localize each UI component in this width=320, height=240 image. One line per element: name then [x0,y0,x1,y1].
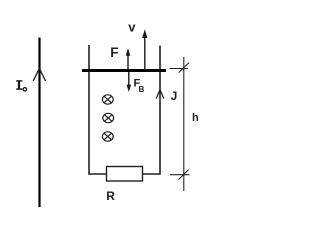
svg-text:B: B [139,85,145,94]
wire: bottom right segment [143,173,161,175]
dimension extension top [170,63,190,73]
field symbol B3 (into page) [102,132,113,141]
current arrow I_o on long wire [33,69,45,82]
force arrow F (upward) [126,48,131,70]
current arrow J on right rail [156,90,164,99]
field symbol B2 (into page) [103,113,114,122]
svg-text:v: v [128,19,136,34]
dimension extension bottom [170,170,190,180]
svg-text:h: h [192,112,199,124]
wire: long straight current-carrying wire [38,38,40,208]
conducting rod (bar) [82,69,166,72]
resistor R [107,167,143,182]
dimension line h [183,57,185,191]
wire: bottom left segment [89,173,107,175]
wire: right rail of circuit [159,46,161,175]
label I_o [16,80,26,91]
svg-text:F: F [110,45,118,60]
force arrow F_B (downward) [127,72,132,92]
svg-text:R: R [106,189,115,203]
wire: left rail of circuit [88,45,90,175]
svg-text:J: J [171,89,178,103]
label F_B [134,77,145,94]
velocity arrow v [142,29,147,70]
field symbol B1 (into page) [102,95,113,104]
